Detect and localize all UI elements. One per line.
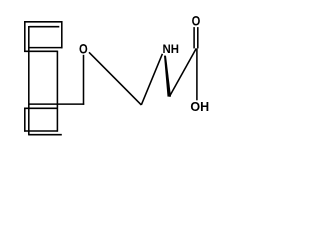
bond CH2-O vertical — [83, 55, 85, 105]
cage bond cross A2-C2 — [24, 50, 57, 52]
cage bond left vertical A1-A2 — [24, 21, 26, 52]
bond O-CH2 diagonal — [89, 52, 141, 105]
bond Calpha-COOH diagonal — [169, 48, 196, 96]
cage bond left vertical A3-A4 — [24, 108, 26, 132]
svg-text:O: O — [192, 13, 201, 28]
cage bond top outer A1-D1 — [24, 21, 62, 23]
C=O double bond line 1 — [193, 27, 195, 48]
cage bond right vertical D1-D2 — [61, 21, 63, 48]
bond CH2-N diagonal — [141, 54, 162, 105]
cage bond bottom B4-D4 — [29, 134, 62, 136]
svg-text:O: O — [79, 42, 88, 57]
cage bond vertical C2-C4 — [56, 51, 58, 132]
C=O double bond line 2 — [197, 27, 199, 48]
bond C-OH vertical — [196, 48, 198, 100]
cage bond vertical B1-B4 — [28, 26, 30, 135]
cage bond bottom A4-C4 — [24, 130, 58, 132]
cage bond cross B2-D2 — [29, 47, 63, 49]
wedge bond N-Calpha — [164, 56, 171, 97]
cage bond lower A3-C3 — [24, 107, 57, 109]
svg-text:NH: NH — [163, 43, 179, 56]
svg-text:OH: OH — [190, 100, 209, 114]
cage bond lower B3-D3 extended to chain corner — [29, 103, 84, 105]
cage bond top inner B1-C1 — [29, 26, 59, 28]
